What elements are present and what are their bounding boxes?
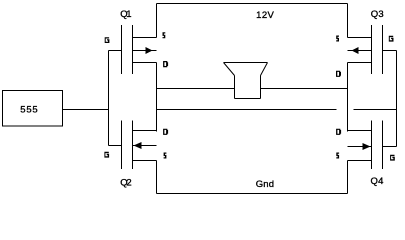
wire Q2 source to Gnd rail [156, 161, 158, 194]
pin label G of Q1 [105, 37, 110, 43]
pin label G of Q4 [390, 155, 395, 161]
pin label S of Q1 [163, 32, 166, 38]
arrow of Q2 [134, 142, 142, 149]
wire left node to right gate bus, left segment (hops over right node) [157, 109, 337, 111]
speaker LS1 [224, 63, 268, 99]
pin label D of Q4 [336, 129, 341, 135]
wire left gate bus (Q1 gate to Q2 gate) [108, 51, 110, 146]
pin label S of Q2 [164, 153, 167, 159]
arrow of Q3 [352, 47, 359, 54]
wire Gnd bottom rail [157, 193, 348, 195]
wire speaker right terminal to right node [261, 88, 348, 90]
wire 12V top rail [157, 3, 348, 5]
svg-text:Q3: Q3 [371, 9, 384, 20]
wire 12V rail to Q1 source [156, 4, 158, 38]
wire Q4 source to Gnd rail [347, 161, 349, 194]
svg-text:Q4: Q4 [371, 176, 384, 187]
wire 555 output [63, 109, 109, 111]
pin label D of Q1 [163, 61, 168, 67]
pin label D of Q3 [336, 71, 341, 77]
pin label S of Q4 [336, 153, 339, 159]
wire 12V rail to Q3 source [347, 4, 349, 38]
arrow of Q1 [146, 47, 153, 54]
timer U1 555 box [3, 91, 63, 127]
transistor Q2 (N-channel MOSFET, bottom left) [109, 121, 157, 170]
pin label S of Q3 [336, 36, 339, 42]
svg-text:Gnd: Gnd [256, 179, 274, 190]
pin label D of Q2 [163, 129, 168, 135]
wire left node to right gate bus, right segment [354, 109, 397, 111]
svg-text:Q2: Q2 [120, 178, 131, 189]
transistor Q4 (N-channel MOSFET, bottom right) [348, 121, 397, 170]
wire left node to speaker left terminal [157, 88, 235, 90]
wire right gate bus (Q3 gate to Q4 gate) [396, 51, 398, 147]
svg-text:12V: 12V [256, 10, 274, 21]
transistor Q3 (P-channel MOSFET, top right) [348, 25, 397, 74]
pin label G of Q2 [104, 152, 109, 158]
wire right output node (Q3 drain to Q4 drain) [347, 63, 349, 132]
arrow of Q4 [363, 143, 371, 150]
svg-text:555: 555 [20, 104, 37, 115]
wire left output node (Q1 drain to Q2 drain) [156, 63, 158, 132]
transistor Q1 (P-channel MOSFET, top left) [109, 25, 157, 74]
svg-text:Q1: Q1 [120, 9, 131, 20]
pin label G of Q3 [389, 36, 394, 42]
